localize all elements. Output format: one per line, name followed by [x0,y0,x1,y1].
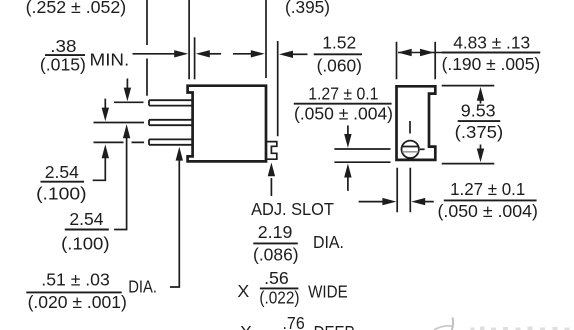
svg-text:4.83 ± .13: 4.83 ± .13 [453,33,530,53]
fraction bar 1.52/(.060) [314,53,362,55]
watermark letter tops [471,327,570,330]
svg-text:(.022): (.022) [259,287,299,307]
arrowhead left at notch-right line [279,51,293,58]
left view body outline [188,86,266,162]
svg-text:(.050 ± .004): (.050 ± .004) [294,104,393,124]
dimension 1.52 right shaft [293,53,308,55]
dimension 4.83 double arrow [398,52,442,54]
pin 2 [149,120,192,125]
dimension 9.53 down arrow [480,145,482,150]
svg-text:1.27 ± 0.1: 1.27 ± 0.1 [450,179,525,199]
svg-text:.76: .76 [283,313,305,330]
fraction 1.27±0.1/(.050±.004) bottom [444,199,537,201]
seating plane extension line lower [334,161,390,163]
svg-text:(.086): (.086) [253,244,299,264]
tick pin1 centerline [114,101,144,103]
centerline dash above screw [409,121,411,134]
extension line 9.53 bottom [442,163,495,165]
svg-text:.51 ± .03: .51 ± .03 [41,269,110,289]
extension line lid-left (x=189) [188,0,190,79]
extension line notch-right (x=277.7) [277,41,279,136]
arrowhead right at body-right line [251,50,265,57]
watermark swoosh [434,326,452,330]
svg-text:(.375): (.375) [455,122,504,142]
screw slot upper edge [402,146,419,148]
dimension 1.27 bottom left arrow [359,201,383,203]
svg-text:(.015): (.015) [40,54,86,74]
screw slot lower edge (gray) [402,151,418,153]
svg-text:.38: .38 [50,36,76,56]
svg-text:2.54: 2.54 [69,209,103,229]
fraction 2.19/(.086) [253,242,297,244]
fraction bar .38/(.015) [45,54,85,56]
fraction 1.27±0.1/(.050±.004) left [294,103,392,105]
svg-text:(.100): (.100) [61,233,109,253]
dimension 1.27 bottom right arrow [425,201,434,203]
slot width extension lines below right view [397,168,410,213]
extension line pin-tips (x=147) [146,0,148,96]
svg-text:2.19: 2.19 [258,222,293,242]
dimension .38 MIN line [133,53,176,55]
svg-text:1.52: 1.52 [322,33,356,53]
right view body outline [397,86,436,160]
svg-text:(.050 ± .004): (.050 ± .004) [438,201,538,221]
dimension 1.27 left down arrow [347,125,349,134]
dimension line stub between .38 arrows [210,53,222,55]
svg-text:X: X [237,281,249,301]
fraction 2.54/(.100) upper [41,181,85,183]
dimension 1.27 left up arrow [347,177,349,191]
arrow up at tick2, leader to lower 2.54 [114,138,127,230]
svg-text:.56: .56 [264,268,289,288]
centerline dash right of screw [420,148,425,150]
arrow up at tick3, leader to upper 2.54 [93,158,106,181]
svg-text:1.27 ± 0.1: 1.27 ± 0.1 [308,83,378,103]
dimension 9.53 up arrow [480,100,482,103]
pin 1 [149,100,192,105]
svg-text:(.190 ± .005): (.190 ± .005) [442,54,541,74]
extension line 9.53 top [442,85,495,87]
svg-text:DIA.: DIA. [313,232,344,252]
svg-text:2.54: 2.54 [45,162,79,182]
svg-text:X: X [240,322,252,330]
svg-text:(.020 ± .001): (.020 ± .001) [28,292,127,312]
fraction 4.83±.13/(.190±.005) [442,52,540,54]
arrow down at tick2 [104,99,106,108]
leader ADJ. SLOT arrow up at body bottom [270,178,272,196]
arrow down at tick1 [126,79,128,89]
svg-text:(.060): (.060) [317,55,362,75]
svg-text:ADJ. SLOT: ADJ. SLOT [251,199,334,219]
pin 3 [149,139,192,144]
svg-text:(.395): (.395) [285,0,330,17]
svg-text:MIN.: MIN. [90,50,130,70]
svg-text:DEEP: DEEP [314,322,355,330]
svg-text:(.252 ± .052): (.252 ± .052) [26,0,127,17]
fraction .56/(.022) [260,287,299,289]
svg-text:WIDE: WIDE [308,282,348,302]
extension line wall (x=194.6) [194,37,196,79]
leader .51 DIA arrow up at pin3 [170,160,179,287]
tick pin2 centerline [94,122,145,124]
arrowhead right at lid-left line [174,50,188,57]
adj-slot side notch [267,142,277,160]
svg-text:(.100): (.100) [36,184,87,204]
svg-text:9.53: 9.53 [461,100,496,120]
fraction 2.54/(.100) lower [65,229,109,231]
slot width extension line upper (left of right view) [334,148,390,150]
arrowhead left at wall line [196,50,210,57]
svg-text:DIA.: DIA. [128,277,157,297]
dimension 1.52 left shaft [233,53,251,55]
tick pin3 centerline [94,141,145,143]
fraction 9.53/(.375) [458,120,501,122]
extension line body-right (x=266) [265,0,267,78]
screw head circle [402,141,419,158]
fraction .51±.03/(.020±.001) [26,291,121,293]
extension lines 4.83 [397,42,436,79]
